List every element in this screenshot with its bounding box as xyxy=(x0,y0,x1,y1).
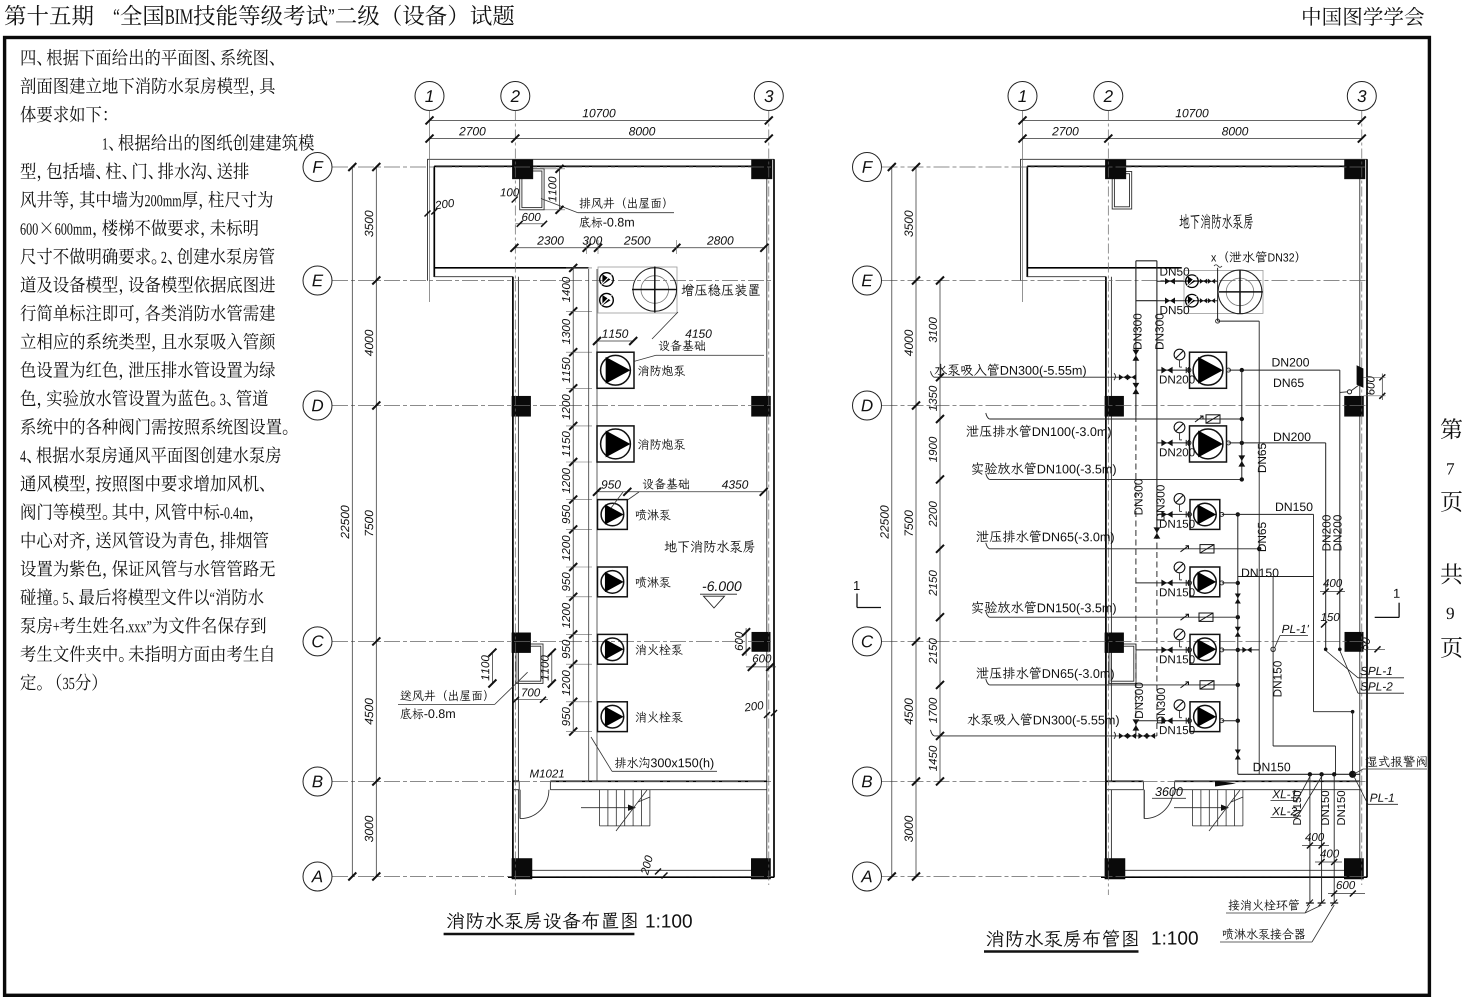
label 消防炮泵 xyxy=(638,365,685,376)
label 湿式报警阀 xyxy=(1354,756,1428,775)
label DN50 upper xyxy=(1160,267,1189,275)
pressure stabilizer tank (plan2) xyxy=(1184,270,1263,314)
pipe label 实验放水管D xyxy=(972,462,1116,476)
section digit 1 left xyxy=(854,581,860,590)
label DN300 rotated xyxy=(1135,683,1143,718)
dim 150 label xyxy=(1321,613,1340,628)
P6 discharge xyxy=(1222,720,1238,722)
relief pipe row R2 泄压排水管DN100 xyxy=(986,413,1244,423)
label 排风井（出屋面）底标-0.8m xyxy=(541,197,674,227)
label 地下消防水泵房 (plan1) xyxy=(665,540,755,553)
label DN200 inlet P2 xyxy=(1160,448,1195,456)
dim 700 below supply shaft xyxy=(513,688,548,702)
dim 100 label xyxy=(500,188,519,202)
column D2 xyxy=(1105,396,1124,416)
dim 400 SPL label xyxy=(1323,579,1342,587)
pipe label 泄压排水管D xyxy=(967,425,1111,439)
west wing west wall xyxy=(1021,159,1028,280)
west wing west wall xyxy=(428,159,435,280)
DN50 branch pipes with pumps xyxy=(1157,268,1259,323)
east wall xyxy=(767,159,774,877)
wall sleeve at D3 (P1 discharge) xyxy=(1340,365,1364,394)
column C2 xyxy=(1105,633,1124,653)
label DN65 rotated xyxy=(1258,443,1266,472)
page number column 第7页共9页 xyxy=(1441,418,1462,658)
label DN200 P2 discharge xyxy=(1274,432,1311,441)
exhaust air shaft (排风井) xyxy=(1112,172,1132,210)
section digit 1 right xyxy=(1394,589,1400,598)
label XL-2 xyxy=(1271,777,1322,818)
label DN200 rotated east xyxy=(1333,515,1341,550)
horizontal grid axis lines A-F xyxy=(882,167,1368,877)
pump P5 symbol (plan2) xyxy=(1190,634,1220,664)
column A3 xyxy=(751,859,770,880)
label 消火栓泵 xyxy=(636,711,683,722)
label 喷淋泵 xyxy=(636,576,671,588)
header title left xyxy=(5,5,514,26)
label DN300 rotated xyxy=(1155,314,1163,349)
dim chain 3500..3000 (plan2) xyxy=(904,163,920,881)
problem statement text block xyxy=(20,49,314,691)
pump P3 symbol xyxy=(598,500,628,530)
P5 discharge xyxy=(1222,647,1259,653)
column C3 xyxy=(752,632,770,651)
P2 discharge line DN200 xyxy=(1229,441,1328,651)
valves on left DN300 vertical xyxy=(1133,350,1140,731)
column C2 xyxy=(512,633,531,653)
dim 1100 left of supply shaft xyxy=(481,649,496,688)
label SPL-1 xyxy=(1326,651,1404,678)
label XL-1 xyxy=(1271,777,1310,801)
dim 600 column C3 vertical xyxy=(735,628,750,656)
grid circles 1 2 3 xyxy=(1008,82,1376,111)
pipe label 实验放水管D xyxy=(972,601,1116,615)
door leaf and swing arc xyxy=(1144,790,1173,819)
column F2 xyxy=(512,160,533,179)
label 3600 xyxy=(1152,787,1186,798)
staircase xyxy=(1174,790,1243,831)
pipe label 水泵吸入管D xyxy=(935,363,1086,377)
plan2 title 消防水泵房布管图 1:100 xyxy=(984,930,1198,952)
label DN150 rotated risers xyxy=(1321,791,1329,825)
fine dim chain 3100..1450 (plan2) xyxy=(929,277,944,786)
dim 400 SPL xyxy=(1320,589,1345,595)
dim 400 label b xyxy=(1320,849,1339,857)
column D2 xyxy=(512,396,531,416)
pump P2 symbol xyxy=(597,426,634,462)
valve on right DN300 vertical xyxy=(1154,527,1161,538)
suction pipe row R1 xyxy=(931,371,1137,380)
label DN150 rotated risers xyxy=(1293,791,1301,825)
label DN150 inlet P3 xyxy=(1160,520,1195,528)
column F3 xyxy=(752,160,773,179)
bottom DN150 run xyxy=(1238,771,1360,778)
pump P2 symbol (plan2) xyxy=(1190,426,1227,462)
dim 600 to wall xyxy=(1328,891,1365,897)
vertical axis lines 1 2 3 xyxy=(1023,111,1362,896)
pressure stabilizer tank 增压稳压装置 (plan1) xyxy=(598,267,677,314)
label 消火栓泵 xyxy=(636,644,683,655)
XL-1 XL-2 coupler risers xyxy=(1306,774,1338,906)
label DN200 rotated east xyxy=(1322,515,1330,550)
label DN300 rotated xyxy=(1157,688,1165,723)
door leaf and swing arc xyxy=(520,790,549,819)
pump P1 symbol (plan2) xyxy=(1190,352,1227,388)
level mark -6.000 xyxy=(700,581,742,608)
label 泄水管DN32 xyxy=(1211,251,1298,267)
dim 2700/8000 (plan2) xyxy=(1019,127,1366,143)
label 设备基础 lower xyxy=(611,478,689,508)
column A2 xyxy=(512,859,532,880)
P1 discharge line DN200 xyxy=(1229,368,1342,651)
label DN200 inlet P1 xyxy=(1160,375,1195,383)
label M1021 xyxy=(530,769,564,777)
label DN300 rotated xyxy=(1133,314,1141,349)
dim 1100 right of supply shaft xyxy=(541,649,556,688)
column A3 xyxy=(1344,859,1363,880)
dim 600 column C3 horizontal xyxy=(746,654,776,671)
F wall (north exterior wall) xyxy=(1020,159,1367,166)
pump P6 symbol xyxy=(598,702,628,732)
label SPL-2 xyxy=(1340,651,1404,694)
label DN150 bottom run xyxy=(1254,763,1291,772)
pipe row R6 泄压排水管DN65 xyxy=(986,679,1240,689)
B wall with door opening xyxy=(1106,781,1360,789)
suction manifold DN300 verticals xyxy=(1136,261,1157,736)
dim 1100 at exhaust shaft xyxy=(545,165,566,214)
pipe row R5 实验放水管DN150 xyxy=(986,611,1240,621)
label DN150 inlet P5 xyxy=(1160,655,1195,663)
P3 discharge xyxy=(1222,513,1314,515)
PL-1' riser line xyxy=(1271,577,1336,775)
dim 22500 (plan2) xyxy=(880,163,896,881)
column C3 xyxy=(1345,632,1363,651)
interior dim chain 1400..950 (plan1) xyxy=(562,264,592,736)
column F3 xyxy=(1345,160,1366,179)
pump P1 symbol xyxy=(597,352,634,388)
pump P1 inlet piping xyxy=(1157,349,1231,373)
label 喷淋泵 xyxy=(636,509,671,521)
pump P5 inlet piping xyxy=(1136,629,1224,653)
pump P3 inlet piping xyxy=(1157,494,1224,518)
dim 200 at west wall xyxy=(425,199,455,217)
A wall (south exterior) xyxy=(1101,870,1367,877)
dim 10700 (plan1 top) xyxy=(426,109,773,125)
section mark 1 right xyxy=(1375,603,1399,618)
column D3 xyxy=(1345,396,1364,416)
pump room west wall xyxy=(513,277,519,871)
dim 1150/4150 line xyxy=(593,329,712,345)
column F2 xyxy=(1105,160,1126,179)
label DN150 inlet P4 xyxy=(1160,588,1195,596)
horizontal grid axis lines A-F xyxy=(332,167,774,877)
staircase xyxy=(581,790,650,831)
dim 200 east wall xyxy=(744,701,777,718)
A wall (south exterior) xyxy=(508,870,774,877)
plan1 title 消防水泵房设备布置图 1:100 xyxy=(444,912,692,934)
pump P5 symbol xyxy=(598,634,628,664)
dim row 2300/300/2500/2800 xyxy=(510,236,768,254)
label DN300 rotated xyxy=(1156,485,1164,520)
exhaust air shaft (排风井) xyxy=(520,169,544,210)
dim 200 south wall xyxy=(640,855,667,879)
column A2 xyxy=(1105,859,1125,880)
label PL-1' xyxy=(1275,625,1310,648)
label PL-1 xyxy=(1355,778,1399,805)
pipe row R3 实验放水管DN100 xyxy=(986,473,1244,481)
pipe label 泄压排水管D xyxy=(977,530,1114,544)
pump P4 symbol xyxy=(598,567,628,597)
dim 400 between risers xyxy=(1302,843,1329,849)
column D3 xyxy=(752,396,771,416)
dim 600 at wall sleeve xyxy=(1364,374,1386,401)
pump P4 inlet piping xyxy=(1136,562,1224,586)
grid circles 1 2 3 xyxy=(415,82,783,111)
label 接消火栓环管 xyxy=(1226,899,1322,913)
label 排水沟300x150(h) xyxy=(591,737,717,771)
pump P3 symbol (plan2) xyxy=(1190,500,1220,530)
label DN150 P3 discharge xyxy=(1276,502,1313,511)
pipe label 泄压排水管D xyxy=(977,667,1114,681)
E wall (wing south wall) xyxy=(1027,268,1182,277)
east wall xyxy=(1360,159,1367,877)
grid circles A-F with letters xyxy=(303,153,332,892)
label DN150 P4 discharge xyxy=(1242,568,1279,577)
label DN65 rotated xyxy=(1258,522,1266,551)
drain channel 排水沟 lines xyxy=(589,269,597,781)
label DN150 rotated PL xyxy=(1273,661,1281,696)
DN65 vertical line xyxy=(1258,321,1260,774)
label 消防炮泵 xyxy=(638,439,685,450)
P4 discharge xyxy=(1222,577,1314,583)
dim 10700 (plan2) xyxy=(1019,109,1366,125)
stair direction arrow (plan2) xyxy=(1215,781,1236,787)
pump P6 inlet piping xyxy=(1136,700,1224,724)
label DN50 lower xyxy=(1160,306,1189,314)
dim 50 label xyxy=(1360,637,1385,652)
dim 950/4350 line xyxy=(593,480,768,496)
dim 600 label riser xyxy=(1337,881,1355,889)
supply air shaft (送风井) xyxy=(1109,644,1136,683)
label 送风井（出屋面）底标-0.8m xyxy=(398,672,528,719)
pipe row R4 泄压排水管DN65 xyxy=(986,543,1262,553)
pump P2 inlet piping xyxy=(1157,422,1231,446)
label 增压稳压装置 xyxy=(682,284,760,297)
label 设备基础 upper xyxy=(634,312,764,361)
label DN200 P1 discharge xyxy=(1273,358,1310,367)
dim chain 3500/4000/7500/4500/3000 (plan1) xyxy=(365,163,381,881)
label DN65 horizontal xyxy=(1274,378,1304,387)
dim 400 between risers b xyxy=(1315,859,1342,865)
F wall (north exterior wall) xyxy=(427,159,774,166)
DN200 header vertical xyxy=(1238,370,1245,479)
pump P6 symbol (plan2) xyxy=(1190,702,1220,732)
pump P4 symbol (plan2) xyxy=(1190,567,1220,597)
label 地下消防水泵房 (plan2) xyxy=(1179,214,1252,230)
E wall (wing south wall) xyxy=(434,268,589,277)
label DN150 inlet P6 xyxy=(1160,726,1195,734)
pipe label 水泵吸入管D xyxy=(968,713,1119,727)
label DN150 rotated risers xyxy=(1337,791,1345,825)
header org right xyxy=(1303,7,1424,26)
label DN300 rotated xyxy=(1134,479,1142,514)
label 喷淋水泵接合器 xyxy=(1220,905,1334,942)
DN150 header vertical xyxy=(1235,512,1241,774)
B wall with door opening xyxy=(513,781,767,789)
dim 400 label a xyxy=(1305,833,1324,841)
pump room west wall xyxy=(1106,277,1112,871)
dim 22500 (plan1 overall) xyxy=(341,163,357,881)
sprinkler feed line to alarm valve xyxy=(1314,514,1355,774)
section mark 1 left xyxy=(857,594,881,608)
dim 600 below shaft xyxy=(515,213,547,227)
vertical axis lines 1 2 3 xyxy=(430,111,769,896)
suction pipe row R7 xyxy=(931,730,1157,739)
grid circles A-F with letters xyxy=(853,153,882,892)
dim 2700/8000 (plan1) xyxy=(426,127,773,143)
supply air shaft (送风井) xyxy=(516,644,543,683)
